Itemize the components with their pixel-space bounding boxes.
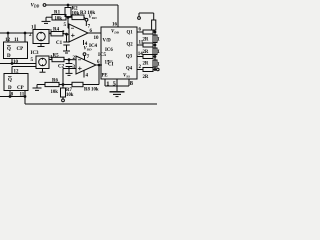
ground IC6 — [110, 92, 125, 97]
svg-text:12: 12 — [5, 38, 11, 43]
svg-text:VDD: VDD — [111, 30, 120, 35]
wire FF1 top row — [0, 32, 33, 34]
wire bottom-left row — [0, 96, 25, 98]
pin 1 IC3 stub — [34, 25, 36, 30]
junction top rail / R2 — [67, 4, 69, 6]
resistor R4 — [49, 32, 69, 36]
junction pin11 — [24, 32, 26, 34]
pin 7 IC5 to VDD — [83, 53, 86, 60]
op-amp IC4 — [69, 24, 88, 42]
wire IC5 output — [96, 64, 102, 66]
ladder rail — [154, 32, 156, 70]
resistor R2 — [65, 5, 71, 18]
ground IC3 bottom — [38, 44, 45, 47]
svg-text:2R: 2R — [143, 50, 149, 55]
wire row A to IC2 — [0, 63, 36, 65]
node output terminal top — [138, 17, 141, 20]
capacitor C2 — [66, 60, 73, 73]
junction output — [98, 64, 100, 66]
wire stubs into FF1 — [7, 33, 9, 42]
resistor 1R c — [153, 60, 157, 67]
junction corner — [24, 96, 26, 98]
oscillator unit IC3 — [33, 30, 49, 44]
svg-text:D: D — [8, 86, 12, 91]
resistor 2R Q2 — [143, 43, 155, 47]
svg-text:CP: CP — [17, 86, 24, 91]
flip-flop IC1b — [4, 74, 28, 91]
svg-text:VSS: VSS — [123, 74, 130, 79]
svg-text:12: 12 — [14, 70, 20, 75]
svg-text:IC5: IC5 — [98, 53, 107, 58]
ground C2 — [66, 73, 73, 75]
resistor R5 — [49, 57, 76, 61]
wire Q2 row — [137, 44, 143, 46]
svg-text:11: 11 — [20, 92, 25, 97]
op-amp IC5 — [76, 56, 96, 74]
wire VDD top rail — [46, 4, 118, 6]
svg-text:10k: 10k — [72, 12, 80, 17]
flip-flop IC1a — [4, 42, 28, 59]
svg-text:10k: 10k — [66, 93, 74, 98]
resistor 2R Q4 — [143, 68, 155, 72]
capacitor C1 — [63, 34, 69, 50]
stub FF2 pin12 — [11, 67, 13, 74]
ground R6 left — [33, 85, 42, 91]
svg-text:2R: 2R — [143, 75, 149, 80]
svg-text:10: 10 — [13, 60, 19, 65]
resistor termination top — [139, 13, 156, 32]
svg-text:C2: C2 — [58, 65, 65, 70]
wire Q3 row — [137, 56, 143, 58]
svg-text:2R: 2R — [143, 62, 149, 67]
junction R2/R3/IC4 node — [67, 17, 69, 19]
svg-text:1R: 1R — [157, 62, 160, 67]
resistor R8 — [63, 82, 99, 86]
counter IC6 — [101, 27, 137, 79]
wire rail down to pin16 — [117, 5, 119, 27]
svg-text:IC6: IC6 — [105, 48, 113, 53]
resistor 1R a — [153, 35, 157, 43]
svg-text:Q1: Q1 — [127, 31, 134, 36]
svg-text:Q4: Q4 — [126, 66, 133, 71]
resistor R1 — [46, 15, 66, 21]
junction feedback node — [62, 84, 64, 86]
resistor R7 — [61, 85, 66, 102]
svg-text:VDD: VDD — [84, 47, 93, 52]
svg-text:Q3: Q3 — [126, 55, 133, 60]
svg-text:IC3: IC3 — [31, 51, 40, 56]
junction pin12 — [7, 32, 9, 34]
resistor 2R Q3 — [143, 55, 155, 59]
svg-text:1: 1 — [106, 80, 109, 87]
svg-text:10k: 10k — [51, 90, 59, 95]
svg-text:VDD: VDD — [89, 15, 98, 20]
svg-text:R5: R5 — [53, 54, 60, 59]
svg-text:CI: CI — [108, 63, 113, 68]
wire output feedback down — [98, 65, 100, 85]
pin 4 IC4 — [83, 40, 85, 45]
svg-text:R6: R6 — [52, 79, 58, 84]
junction C2 tap — [68, 59, 70, 61]
node VDD terminal 2 — [85, 18, 88, 21]
svg-text:11: 11 — [14, 38, 19, 43]
oscillator unit IC2 — [36, 56, 49, 69]
stub FF2 pin8 — [9, 91, 11, 97]
svg-text:2R: 2R — [143, 38, 149, 43]
pin 9 stub FF1 bottom — [11, 59, 13, 64]
wire node down to IC4 input — [67, 17, 69, 28]
pin 7 IC4 to VDD — [85, 21, 87, 26]
svg-text:CP: CP — [17, 47, 24, 52]
svg-text:Q: Q — [7, 47, 11, 52]
node VDD supply terminal — [43, 4, 46, 7]
wire Q1 row — [137, 31, 143, 33]
svg-text:1R: 1R — [157, 50, 160, 55]
pin 4 IC5 — [83, 70, 85, 77]
svg-text:Q2: Q2 — [127, 43, 134, 48]
wire pin3 input — [63, 69, 76, 85]
wire row B to IC2 — [12, 66, 36, 68]
svg-text:10: 10 — [94, 36, 100, 41]
junction ladder nodes — [154, 31, 156, 33]
wire down to bus — [24, 97, 26, 105]
wire Q4 row — [137, 69, 143, 71]
svg-text:Q: Q — [8, 78, 12, 83]
resistor 1R b — [153, 48, 157, 55]
svg-text:V/D: V/D — [103, 39, 112, 44]
stub FF2 pin11 — [24, 91, 26, 97]
resistor 2R Q1 — [143, 30, 155, 34]
wire node to R3 — [68, 16, 72, 18]
resistor R6 — [37, 82, 63, 86]
ground IC2 bottom — [40, 69, 46, 73]
node output terminal right — [155, 68, 159, 71]
wire IC4 output to pin10 — [88, 32, 101, 34]
pins 1 5 8 bottom — [105, 79, 129, 91]
svg-text:D: D — [7, 54, 11, 59]
svg-text:R1: R1 — [54, 11, 61, 16]
junction pin8 — [9, 96, 11, 98]
junction C1 tap — [66, 33, 68, 35]
resistor R3 — [72, 15, 86, 20]
svg-text:C1: C1 — [56, 41, 63, 46]
ground R1 left — [42, 17, 51, 23]
svg-text:16: 16 — [112, 23, 118, 28]
svg-text:1R: 1R — [157, 37, 160, 42]
junction row A — [11, 63, 13, 65]
ground C1 — [63, 51, 70, 53]
svg-text:PE: PE — [102, 74, 108, 79]
wire bottom bus — [25, 103, 157, 105]
svg-text:10k: 10k — [55, 16, 63, 21]
svg-text:R8 10k: R8 10k — [84, 88, 99, 93]
svg-text:R4: R4 — [53, 28, 60, 33]
